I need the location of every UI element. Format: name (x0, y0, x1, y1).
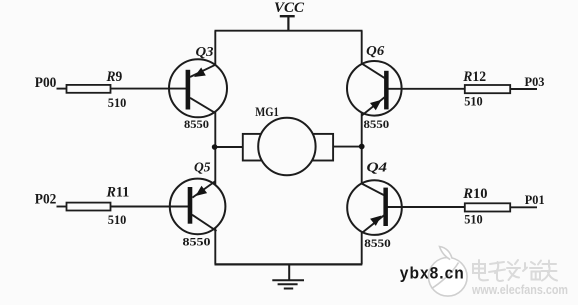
resistor R10 (465, 203, 537, 211)
wire top rail VCC (215, 30, 363, 32)
Q6 collector line (362, 64, 385, 79)
wire P02 to R11 (57, 206, 67, 208)
transistor Q6 (347, 61, 465, 116)
svg-text:8550: 8550 (364, 117, 390, 131)
wire VCC stub (287, 16, 289, 31)
ground bar 2 (278, 283, 298, 285)
Q6 emitter line (362, 97, 386, 116)
Q4 collector line (362, 184, 384, 196)
transistor Q5 (111, 179, 226, 235)
transistor Q3 (111, 59, 227, 117)
Q4 emitter arrow (PNP) (370, 216, 381, 226)
svg-text:P03: P03 (525, 74, 545, 89)
R12 body (465, 85, 510, 93)
wire motor left (215, 146, 243, 148)
Q3 base bar (186, 70, 191, 110)
Q4 body circle (347, 180, 402, 235)
svg-text:R9: R9 (106, 69, 123, 85)
wire R12 to P03 (510, 88, 537, 90)
Q6 body circle (347, 61, 402, 116)
wire right vertical (361, 31, 363, 265)
wire motor right (333, 146, 362, 148)
resistor R12 (465, 85, 537, 93)
svg-text:Q4: Q4 (367, 161, 388, 176)
svg-text:P00: P00 (35, 75, 57, 91)
svg-text:www.elecfans.com: www.elecfans.com (471, 283, 568, 297)
node right junction (359, 144, 365, 150)
R10 body (465, 203, 510, 211)
Q5 collector line (192, 215, 217, 231)
transistor Q4 (347, 180, 465, 235)
Q5 base bar (188, 187, 193, 224)
wire bottom rail (215, 263, 363, 265)
svg-text:Q6: Q6 (366, 44, 384, 59)
svg-text:8550: 8550 (364, 236, 391, 250)
MG1 right terminal block (313, 134, 333, 161)
ground bar 1 (272, 279, 304, 281)
Q6 emitter arrow (PNP) (370, 100, 382, 111)
svg-text:MG1: MG1 (255, 105, 279, 119)
ground stub (288, 264, 290, 280)
Q3 emitter line (190, 65, 215, 77)
svg-text:R12: R12 (462, 69, 486, 85)
R9 body (67, 85, 111, 93)
svg-text:Q3: Q3 (196, 45, 214, 60)
svg-text:Q5: Q5 (194, 161, 211, 176)
wire R10 to P01 (510, 206, 537, 208)
svg-text:P01: P01 (525, 192, 545, 207)
motor MG1 (243, 118, 333, 175)
Q5 emitter line (192, 181, 215, 198)
svg-text:510: 510 (464, 212, 483, 226)
wire VCC terminal tick (280, 15, 295, 17)
watermark logo leaf (429, 247, 468, 297)
wire Q6 base to R12 (388, 88, 466, 90)
ground bar 3 (284, 288, 293, 290)
R11 body (67, 203, 111, 211)
svg-text:8550: 8550 (183, 234, 211, 248)
wire Q5 base from R11 (111, 206, 189, 208)
Q5 emitter arrow (PNP) (196, 186, 208, 196)
resistor R9 (57, 85, 111, 93)
svg-text:P02: P02 (35, 192, 57, 208)
MG1 motor body circle (258, 118, 315, 175)
Q3 collector line (190, 98, 216, 113)
svg-text:510: 510 (464, 94, 483, 108)
wire Q4 base to R10 (387, 206, 465, 208)
wire Q3 base from R9 (111, 88, 187, 90)
Q4 base bar (383, 188, 388, 226)
svg-text:R11: R11 (106, 184, 130, 200)
Q5 body circle (170, 179, 226, 235)
svg-text:510: 510 (108, 212, 127, 227)
svg-text:510: 510 (108, 95, 127, 110)
Q3 emitter arrow (PNP) (194, 68, 206, 78)
ground (272, 264, 304, 288)
svg-text:8550: 8550 (184, 117, 209, 131)
svg-text:ybx8.cn: ybx8.cn (400, 264, 465, 283)
node left junction (212, 144, 218, 150)
resistor R11 (57, 203, 111, 211)
Q3 body circle (169, 59, 227, 117)
Q4 emitter line (362, 215, 385, 234)
wire P00 to R9 (57, 88, 67, 90)
wire left vertical (214, 31, 216, 265)
svg-text:VCC: VCC (274, 0, 305, 16)
watermark chinese glyphs (473, 260, 557, 281)
MG1 left terminal block (243, 134, 263, 161)
Q6 base bar (384, 71, 389, 110)
svg-text:R10: R10 (462, 186, 487, 202)
